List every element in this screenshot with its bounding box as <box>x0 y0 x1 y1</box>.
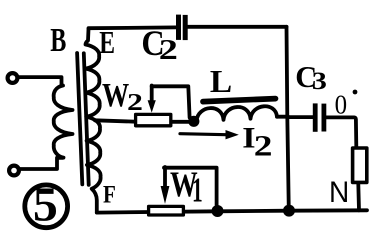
svg-text:5: 5 <box>33 177 58 231</box>
figure number 5 <box>33 177 58 231</box>
label N <box>329 176 349 209</box>
wire top-left terminal to primary top <box>19 77 62 84</box>
wire secondary tap to W2 <box>95 120 136 121</box>
W2 wiper arrow <box>150 86 154 102</box>
wire C2 to top-right corner <box>187 25 286 29</box>
label B <box>50 22 66 59</box>
label C2 <box>141 25 164 64</box>
label E <box>99 26 115 61</box>
terminal top-left <box>8 73 18 83</box>
resistor N body <box>353 148 367 182</box>
apostrophe of 0' <box>353 90 358 95</box>
svg-text:2: 2 <box>254 130 273 162</box>
transformer core <box>77 53 82 184</box>
svg-text:1: 1 <box>192 172 203 210</box>
W1 wiper arrow <box>163 167 167 187</box>
svg-text:W: W <box>102 76 129 114</box>
capacitor C2 <box>176 15 181 40</box>
svg-text:2: 2 <box>127 89 143 116</box>
svg-text:3: 3 <box>312 67 327 95</box>
label 0' <box>335 89 347 119</box>
inductor L core bar <box>203 99 276 102</box>
wire node to C3 <box>289 115 313 119</box>
junction node L-left <box>188 116 199 127</box>
label I2 <box>242 120 255 154</box>
terminal bottom-left <box>9 166 19 176</box>
wire secondary top to capacitor C2 <box>89 25 177 30</box>
svg-text:0: 0 <box>335 89 347 119</box>
potentiometer W1 body <box>149 206 184 215</box>
wire W2 wiper loop <box>152 86 190 117</box>
capacitor C3 <box>313 103 318 131</box>
figure number circle 5 <box>25 185 68 228</box>
inductor L winding <box>197 106 278 121</box>
svg-text:2: 2 <box>159 34 178 66</box>
transformer B primary winding <box>54 86 73 158</box>
transformer secondary winding <box>86 29 101 213</box>
wire C3 to corner 0' down to resistor N <box>326 117 356 146</box>
arrow I2 <box>180 134 226 135</box>
svg-text:E: E <box>99 26 115 61</box>
wire L to right vertical <box>277 115 288 119</box>
svg-text:F: F <box>103 180 116 208</box>
wire W2 right to node <box>172 120 191 124</box>
label L <box>210 65 232 100</box>
wire bottom <box>97 210 367 212</box>
svg-text:L: L <box>210 65 232 100</box>
svg-text:B: B <box>50 22 66 59</box>
wire resistor N to bottom wire <box>356 184 361 210</box>
label F <box>103 180 116 208</box>
wire right vertical branch <box>287 27 289 211</box>
label C3 <box>295 60 317 94</box>
wire W1 wiper loop <box>164 168 217 205</box>
potentiometer W2 body <box>136 114 171 125</box>
label W1 <box>170 165 198 204</box>
label W2 <box>102 76 129 114</box>
junction node bottom-right <box>283 205 295 217</box>
svg-text:N: N <box>329 176 349 209</box>
junction node W1-right <box>212 205 224 217</box>
wire bottom-left terminal to primary bottom <box>20 158 63 169</box>
